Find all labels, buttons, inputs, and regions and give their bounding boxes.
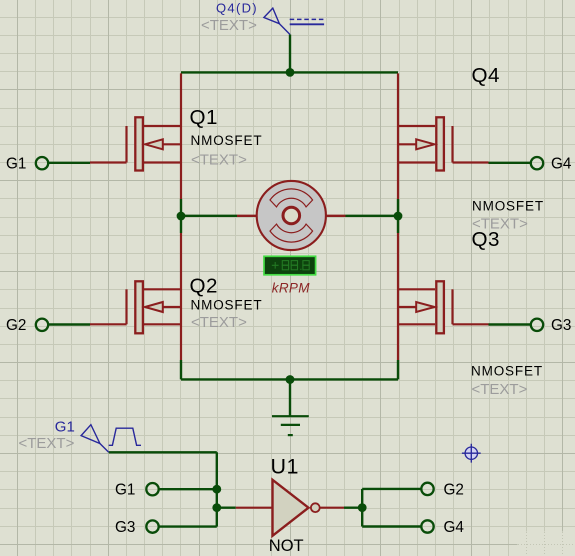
svg-text:G4: G4: [444, 519, 465, 536]
svg-text:G1: G1: [6, 156, 26, 173]
svg-text:Q2: Q2: [190, 275, 218, 298]
svg-text:G2: G2: [444, 481, 464, 498]
svg-text:NMOSFET: NMOSFET: [472, 198, 544, 213]
svg-text:<TEXT>: <TEXT>: [191, 152, 247, 169]
svg-text:G3: G3: [551, 317, 571, 334]
svg-text:U1: U1: [271, 455, 299, 479]
svg-text:Q4(D): Q4(D): [216, 0, 258, 15]
svg-text:<TEXT>: <TEXT>: [201, 17, 257, 34]
svg-text:NOT: NOT: [269, 537, 304, 555]
svg-text:G4: G4: [551, 156, 572, 173]
svg-text:<TEXT>: <TEXT>: [191, 314, 247, 331]
svg-text:<TEXT>: <TEXT>: [19, 435, 75, 452]
svg-text:NMOSFET: NMOSFET: [471, 364, 543, 379]
svg-text:NMOSFET: NMOSFET: [191, 297, 263, 312]
svg-text:G1: G1: [115, 482, 135, 499]
svg-text:<TEXT>: <TEXT>: [472, 216, 528, 233]
svg-text:G2: G2: [6, 317, 26, 334]
svg-text:kRPM: kRPM: [272, 281, 310, 296]
svg-text:NMOSFET: NMOSFET: [191, 133, 263, 148]
svg-text:Q1: Q1: [190, 106, 218, 129]
svg-text:G3: G3: [115, 519, 135, 536]
svg-text:Q4: Q4: [472, 64, 500, 87]
svg-text:G1: G1: [55, 418, 75, 435]
svg-text:<TEXT>: <TEXT>: [472, 381, 528, 398]
